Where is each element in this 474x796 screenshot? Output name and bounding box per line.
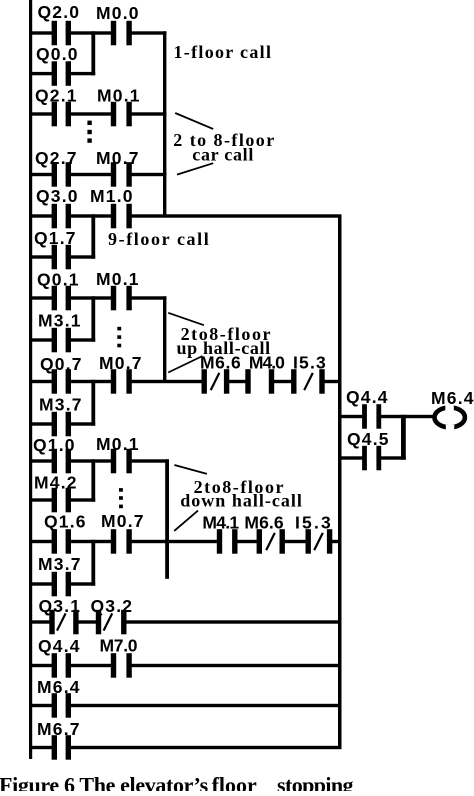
contact Q2.1 (52, 102, 57, 127)
contact M0.1 rung4 (111, 286, 116, 311)
contact M3.7 second (52, 572, 57, 597)
pointer line rung5 to up text (168, 356, 202, 373)
left power rail (29, 0, 32, 759)
svg-text:Q1.6: Q1.6 (44, 511, 87, 531)
svg-text:I5.3: I5.3 (295, 513, 333, 533)
contact M6.6 normally-closed (202, 369, 207, 394)
contact Q4.4 output (362, 404, 367, 429)
ellipsis dots up hall-call (117, 327, 121, 331)
svg-text:M6.4: M6.4 (37, 677, 81, 697)
wire rung4 (up hall-call top) (29, 296, 53, 299)
svg-text:9-floor call: 9-floor call (108, 229, 210, 249)
svg-text:M6.7: M6.7 (37, 719, 81, 739)
svg-text:Q2.1: Q2.1 (35, 85, 78, 105)
svg-text:Q4.4: Q4.4 (38, 636, 81, 656)
svg-text:stopping: stopping (277, 772, 354, 791)
svg-text:car call: car call (192, 145, 254, 165)
vertical collector wire rung4 to rung5 (163, 296, 166, 381)
contact Q0.1 (52, 286, 57, 311)
svg-text:Q2.0: Q2.0 (38, 2, 81, 22)
wire rung6 (down hall-call top) (29, 459, 53, 462)
wire join M3.1 to rung4 (91, 296, 95, 341)
svg-text:M6.6: M6.6 (244, 513, 283, 533)
wire rung2 (2-floor call) (29, 112, 53, 115)
svg-text:I5.3: I5.3 (293, 352, 327, 372)
wire rung3 (9-floor call) (29, 214, 53, 217)
svg-text:Q4.5: Q4.5 (347, 429, 390, 449)
contact I5.3 normally-closed rung7 (306, 529, 311, 554)
contact Q3.0 (52, 204, 57, 229)
contact M0.7 rung5 (111, 369, 116, 394)
coil M6.4 (435, 407, 465, 427)
vertical collector wire rung6 to rung7 with stub (165, 459, 169, 579)
contact Q4.4 rung9 (52, 653, 57, 678)
contact Q1.0 (52, 449, 57, 474)
svg-text:Q4.4: Q4.4 (346, 387, 389, 407)
wire join M4.2 to rung6 (91, 459, 95, 501)
wire rung9 (29, 664, 53, 667)
contact Q3.1 normally-closed (49, 610, 54, 635)
svg-text:M3.1: M3.1 (38, 310, 82, 330)
svg-text:M0.1: M0.1 (96, 434, 140, 454)
contact M4.0 (245, 369, 250, 394)
svg-text:M3.7: M3.7 (38, 554, 82, 574)
svg-text:Q1.7: Q1.7 (34, 228, 77, 248)
contact M6.6 normally-closed rung7 (257, 529, 262, 554)
svg-text:1-floor call: 1-floor call (174, 42, 273, 62)
wire branch M3.7 second (29, 582, 53, 585)
contact M4.1 (217, 529, 222, 554)
contact M0.1 rung6 (111, 449, 116, 474)
svg-text:Q3.0: Q3.0 (36, 186, 79, 206)
wire branch M3.7 (29, 422, 53, 425)
wire branch M3.1 (29, 338, 53, 341)
contact M6.4 rung10 (52, 693, 57, 718)
svg-text:M3.7: M3.7 (39, 394, 83, 414)
svg-text:down hall-call: down hall-call (180, 490, 303, 510)
contact M0.1 (111, 102, 116, 127)
svg-text:Figure 6 The elevator’s: Figure 6 The elevator’s (0, 772, 209, 791)
wire rung1 (1-floor call) (29, 31, 53, 34)
wire branch M4.2 (29, 498, 53, 501)
ellipsis dots between rung2 and rung2b (87, 121, 91, 125)
wire output rung Q4.4 to coil (338, 415, 363, 418)
svg-text:Q0.7: Q0.7 (40, 354, 83, 374)
contact Q2.0 (52, 21, 57, 46)
wire branch Q1.7 (29, 255, 53, 258)
wire output rung Q4.5 (338, 456, 363, 459)
contact M0.7 rung7 (111, 529, 116, 554)
pointer line rung4 to up text (168, 313, 204, 325)
svg-text:Q3.1: Q3.1 (39, 596, 82, 616)
wire rung2b (8-floor call) Q2.7/M0.7 (29, 173, 53, 176)
contact Q4.5 (362, 446, 367, 471)
contact M6.7 (52, 735, 57, 760)
wire rung11 (29, 746, 53, 749)
svg-text:Q0.1: Q0.1 (37, 269, 80, 289)
svg-text:floor: floor (212, 772, 257, 791)
wire join Q1.7 to rung3 (91, 214, 95, 258)
pointer line rung7 to down text (174, 511, 198, 531)
svg-text:M0.7: M0.7 (99, 353, 143, 373)
svg-text:M0.1: M0.1 (97, 85, 141, 105)
svg-text:M4.1: M4.1 (202, 513, 239, 533)
wire join M3.7 to rung5 (91, 380, 95, 426)
svg-text:M4.2: M4.2 (34, 472, 78, 492)
contact M1.0 (111, 204, 116, 229)
svg-text:M1.0: M1.0 (90, 186, 134, 206)
svg-text:M0.7: M0.7 (101, 511, 145, 531)
wire rung10 (29, 704, 53, 707)
svg-text:Q0.0: Q0.0 (36, 44, 79, 64)
contact M3.7 (52, 412, 57, 437)
right collection bus (338, 215, 342, 749)
wire branch Q0.0 (29, 72, 53, 75)
contact Q1.7 (52, 245, 57, 269)
svg-text:M0.1: M0.1 (96, 269, 140, 289)
pointer line rung2b to car-call text (177, 163, 213, 174)
pointer line rung2 to car-call text (175, 113, 213, 129)
contact Q2.7 (52, 162, 57, 187)
contact I5.3 normally-closed (291, 369, 296, 394)
wire rung8 (29, 620, 50, 623)
pointer line rung6 to down text (174, 465, 207, 474)
wire join Q0.0 to rung1 (91, 31, 95, 75)
svg-text:Q1.0: Q1.0 (33, 435, 76, 455)
contact M3.1 (52, 328, 57, 353)
svg-text:M0.0: M0.0 (96, 3, 140, 23)
contact Q3.2 normally-closed (96, 610, 101, 635)
contact M0.0 (111, 21, 116, 46)
svg-text:M0.7: M0.7 (96, 148, 140, 168)
contact Q1.6 (52, 529, 57, 554)
vertical collector wire rungs1-3 (163, 31, 166, 216)
wire join Q4.5 to Q4.4 rung (401, 415, 406, 460)
contact M7.0 (111, 653, 116, 678)
svg-text:Q3.2: Q3.2 (91, 596, 134, 616)
contact Q0.0 (52, 61, 57, 86)
contact M0.7 (111, 162, 116, 187)
svg-text:Q2.7: Q2.7 (35, 148, 78, 168)
svg-text:up hall-call: up hall-call (177, 338, 271, 358)
contact M4.2 (52, 488, 57, 513)
wire rung7 (down hall-call output) (29, 540, 53, 543)
svg-text:M7.0: M7.0 (100, 635, 138, 655)
ellipsis dots down hall-call (119, 488, 123, 492)
wire rung5 (up hall-call output) (29, 380, 53, 383)
svg-text:M6.4: M6.4 (431, 388, 474, 408)
wire join M3.7 second to rung7 (91, 540, 95, 586)
contact Q0.7 (52, 369, 57, 394)
